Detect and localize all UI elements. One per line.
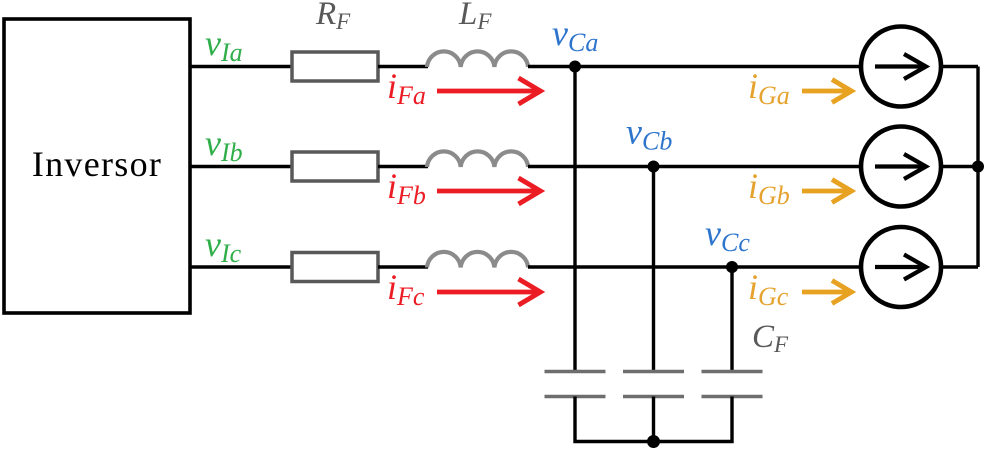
node vCc dot: [726, 261, 738, 273]
label vCc: [705, 213, 750, 257]
wire phase c: source to right bus: [941, 265, 978, 268]
current source U_c: [861, 227, 941, 307]
node vCb dot: [648, 161, 660, 173]
capacitor CF phase a: [545, 372, 606, 397]
label CF: [752, 319, 789, 357]
svg-text:Inversor: Inversor: [32, 144, 162, 184]
inductor LF phase b: [427, 151, 528, 167]
wire node vCa down to capacitor: [573, 67, 576, 373]
wire phase a: inductor to current source: [528, 65, 862, 68]
label vCb: [626, 112, 672, 156]
label vIb: [205, 123, 243, 167]
node vCa dot: [569, 61, 581, 73]
resistor RF phase c: [292, 253, 378, 282]
current source U_b: [861, 127, 941, 207]
bottom bus junction dot: [647, 435, 660, 448]
right bus wire: [976, 67, 979, 268]
current arrow iGa: [802, 80, 852, 103]
label RF: [315, 0, 351, 34]
current arrow iFb: [437, 178, 541, 204]
inductor LF phase a: [427, 51, 528, 67]
resistor RF phase a: [292, 52, 378, 81]
wire phase a: source to right bus: [941, 65, 978, 68]
label iFb: [387, 166, 426, 210]
label iGc: [748, 267, 789, 311]
resistor RF phase b: [292, 152, 378, 181]
label iFa: [387, 66, 426, 110]
wire phase b: source to right bus: [941, 165, 978, 168]
wire phase c: inductor to current source: [528, 265, 862, 268]
label vCa: [552, 13, 598, 57]
capacitor CF phase c: [702, 372, 763, 397]
wire phase c: resistor to inductor: [378, 265, 428, 268]
wire capacitor b to bottom bus: [652, 397, 655, 442]
wire phase b: resistor to inductor: [378, 165, 428, 168]
wire capacitor a to bottom bus: [575, 397, 654, 442]
current source U_a: [861, 27, 941, 107]
current arrow iGc: [802, 281, 852, 304]
wire phase b: inductor to current source: [528, 165, 862, 168]
wire capacitor c to bottom bus: [654, 397, 733, 442]
wire node vCc down to capacitor: [730, 267, 733, 372]
inductor LF phase c: [427, 252, 528, 268]
right bus junction dot: [972, 161, 984, 173]
current arrow iFc: [437, 279, 541, 305]
wire phase c: inverter to resistor: [190, 265, 292, 268]
Inversor block: [4, 19, 190, 313]
capacitor CF phase b: [623, 372, 684, 397]
label iGa: [748, 66, 790, 110]
label iFc: [387, 267, 425, 311]
wire phase a: inverter to resistor: [190, 65, 292, 68]
label vIa: [205, 23, 243, 67]
current arrow iGb: [802, 180, 852, 203]
label LF: [458, 0, 492, 34]
label vIc: [205, 224, 242, 268]
wire phase a: resistor to inductor: [378, 65, 428, 68]
wire node vCb down to capacitor: [652, 167, 655, 373]
current arrow iFa: [437, 78, 541, 104]
label iGb: [748, 166, 790, 210]
wire phase b: inverter to resistor: [190, 165, 292, 168]
